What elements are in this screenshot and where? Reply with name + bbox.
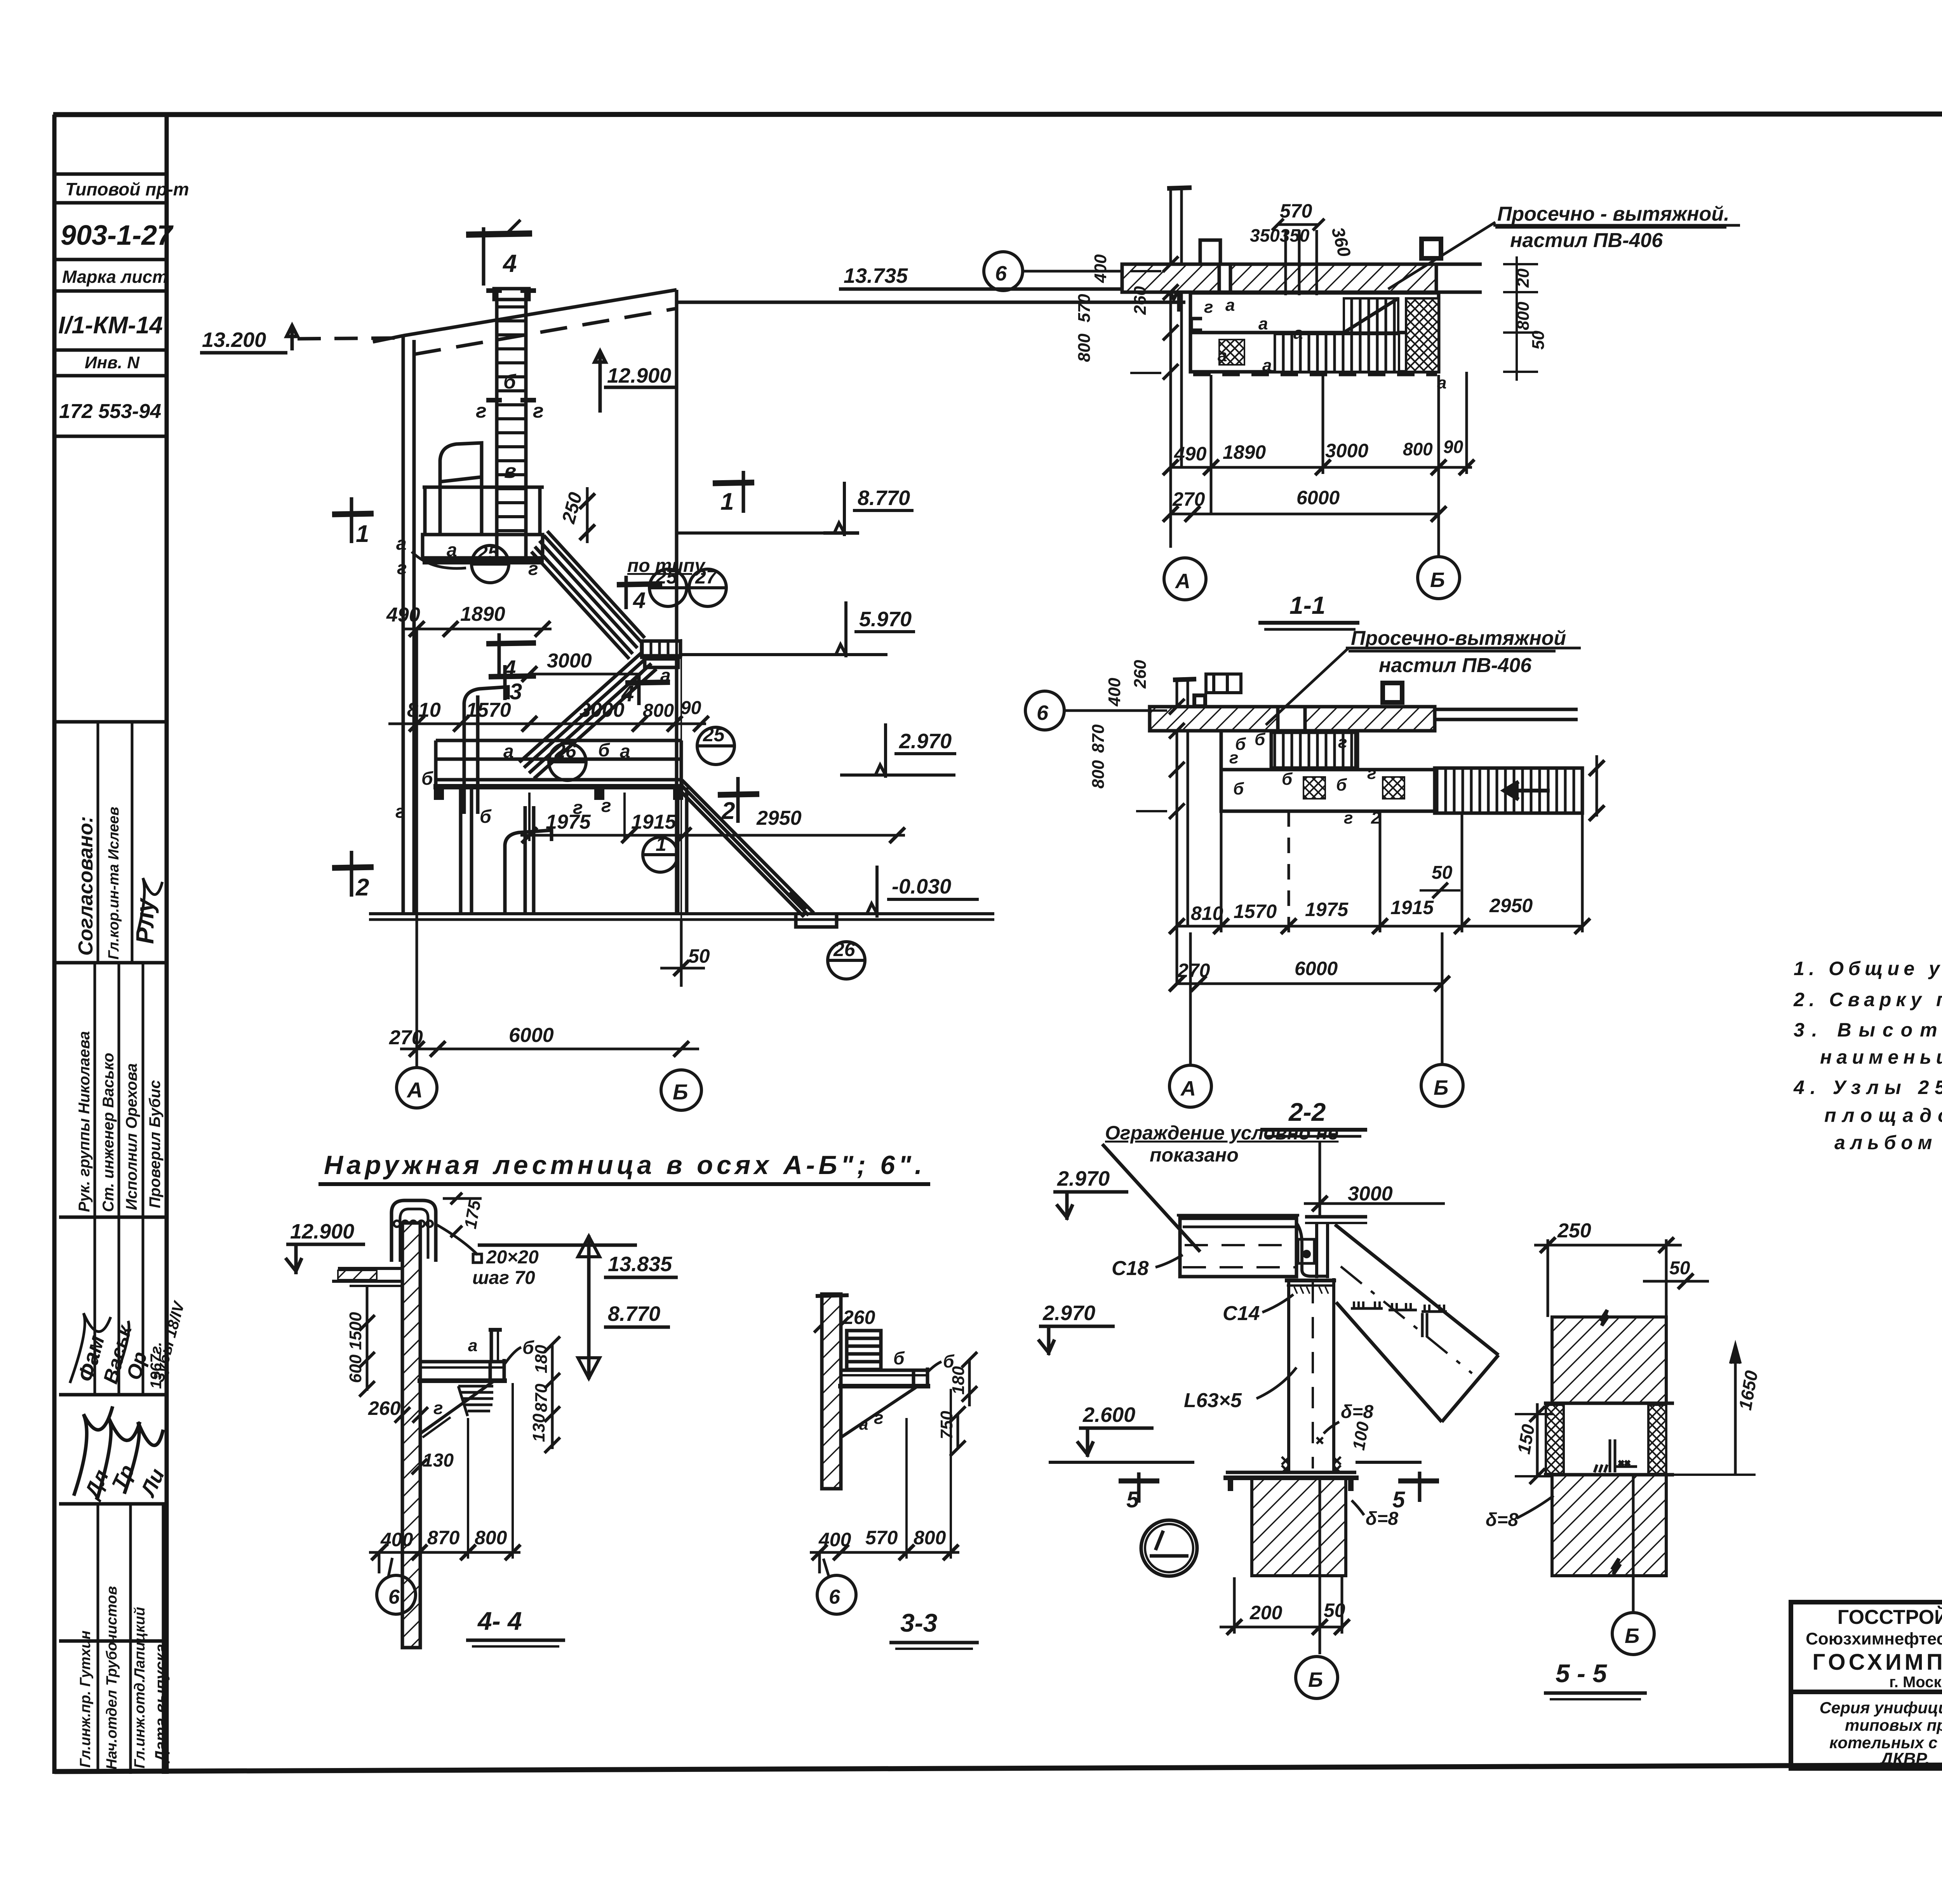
platform plan body — [1190, 293, 1439, 375]
beam band v55 — [1544, 1403, 1674, 1475]
svg-text:260: 260 — [1131, 286, 1150, 315]
svg-text:настил ПВ-406: настил ПВ-406 — [1379, 654, 1532, 677]
right rotated dims v33 — [937, 1366, 968, 1439]
svg-text:а: а — [660, 665, 671, 686]
svg-text:а: а — [620, 741, 630, 762]
right end ticks s22 — [1589, 755, 1604, 821]
svg-text:г: г — [476, 400, 487, 422]
section marker 2 right — [718, 777, 759, 823]
svg-text:а: а — [468, 1336, 477, 1355]
svg-text:50: 50 — [1432, 862, 1453, 883]
svg-text:а: а — [859, 1415, 868, 1433]
eaves line right — [677, 301, 1185, 304]
ladder top cap — [494, 289, 529, 300]
svg-text:750: 750 — [937, 1411, 956, 1439]
dim 50 — [660, 920, 705, 987]
dim row 1975 1915 2950 — [520, 793, 905, 843]
dim 570 top — [1272, 219, 1324, 295]
deck band s22 — [1221, 731, 1435, 811]
brace v33 — [841, 1387, 917, 1437]
notes block — [1793, 918, 1942, 1153]
beam C18 — [1177, 1215, 1367, 1277]
platform v33 — [838, 1367, 930, 1388]
svg-text:12.900: 12.900 — [290, 1220, 354, 1243]
railing bracket upper — [440, 443, 482, 533]
node marker 4 mid — [486, 633, 536, 679]
svg-text:г: г — [533, 400, 544, 422]
stair foot plate — [796, 913, 837, 927]
svg-text:810: 810 — [407, 699, 441, 721]
svg-text:типовых проектов: типовых проектов — [1845, 1716, 1942, 1734]
wall hatched band top — [1122, 264, 1482, 292]
svg-text:Б: Б — [1625, 1624, 1639, 1648]
node marker 3 — [489, 665, 536, 700]
roof slope solid — [373, 336, 403, 342]
svg-text:Рук. группы Николаева: Рук. группы Николаева — [76, 1031, 93, 1212]
level mark 5.970 — [680, 601, 915, 657]
svg-text:2.970: 2.970 — [899, 730, 952, 753]
level mark -0.030 — [867, 866, 979, 918]
svg-text:800: 800 — [1075, 333, 1094, 362]
svg-text:Б: Б — [1434, 1076, 1448, 1099]
svg-text:1570: 1570 — [1234, 901, 1277, 922]
svg-text:90: 90 — [680, 698, 701, 718]
ladder square right s22 — [1383, 683, 1402, 702]
top tick v33 — [816, 1295, 849, 1296]
svg-text:ГОСХИМПРОЕКТ: ГОСХИМПРОЕКТ — [1812, 1650, 1942, 1675]
svg-text:5: 5 — [1126, 1487, 1139, 1512]
left rotated dims — [1075, 254, 1150, 362]
connection plates — [1296, 1223, 1328, 1278]
svg-text:400: 400 — [380, 1529, 413, 1550]
landing 5.970 — [640, 641, 682, 667]
level mark 12.900 — [595, 350, 676, 413]
svg-text:3: 3 — [510, 679, 522, 704]
svg-text:Просечно - вытяжной.: Просечно - вытяжной. — [1497, 203, 1730, 225]
svg-text:1890: 1890 — [1223, 441, 1266, 463]
svg-text:1570: 1570 — [466, 699, 511, 721]
axis circle А — [397, 1068, 437, 1108]
svg-text:3-3: 3-3 — [900, 1608, 937, 1637]
column C14 — [1285, 1278, 1336, 1472]
leader просечно-вытяжной — [1388, 222, 1740, 289]
upper platform 8.770 — [423, 443, 544, 562]
platform v44 — [418, 1330, 507, 1383]
svg-text:800: 800 — [1403, 439, 1433, 459]
svg-text:Проверил Бубис: Проверил Бубис — [146, 1080, 164, 1208]
svg-text:4- 4: 4- 4 — [477, 1606, 522, 1635]
wall hatched v33 — [822, 1294, 841, 1489]
axis circle Б s22 — [1421, 1064, 1463, 1106]
svg-text:настил ПВ-406: настил ПВ-406 — [1510, 229, 1663, 252]
svg-text:2: 2 — [721, 798, 735, 824]
svg-text:Просечно-вытяжной: Просечно-вытяжной — [1351, 627, 1566, 650]
svg-text:2.970: 2.970 — [1042, 1301, 1095, 1325]
svg-text:25: 25 — [655, 566, 678, 588]
building right edge — [675, 290, 679, 915]
foundation block — [1252, 1479, 1346, 1576]
svg-text:3. Высоту сварных швов прин: 3. Высоту сварных швов принимать по — [1794, 1019, 1942, 1041]
wall upper v55 — [1552, 1317, 1666, 1403]
lower bracket — [505, 830, 552, 913]
svg-text:г: г — [397, 558, 407, 578]
svg-text:570: 570 — [1280, 200, 1312, 222]
column square top right — [1422, 239, 1441, 258]
svg-text:показано: показано — [1150, 1144, 1239, 1166]
svg-text:870: 870 — [532, 1383, 551, 1412]
section marker 4 top — [482, 227, 486, 286]
left stamp strip — [54, 115, 167, 1774]
axis circle А s11 — [1164, 558, 1206, 600]
svg-text:а: а — [396, 533, 407, 554]
svg-text:С18: С18 — [1112, 1257, 1148, 1280]
svg-text:4. Узлы 25,26,27 и профили: 4. Узлы 25,26,27 и профили конструкций л… — [1793, 1077, 1942, 1098]
svg-text:г: г — [1367, 764, 1376, 783]
detail circle 25 upper — [472, 545, 509, 583]
wall left edge — [402, 335, 405, 915]
svg-text:810: 810 — [1191, 902, 1223, 924]
level mark 8.770 — [677, 482, 914, 536]
steps v44 — [458, 1386, 493, 1416]
axis circle Б — [661, 1070, 701, 1110]
svg-text:13.835: 13.835 — [608, 1252, 672, 1276]
node marker 4 under landing — [625, 673, 670, 705]
wall hatched band s22 — [1150, 707, 1578, 731]
svg-text:50: 50 — [1669, 1258, 1690, 1279]
right flight band s22 — [1435, 768, 1582, 813]
svg-text:Наружная лестница в осях А: Наружная лестница в осях А-Б"; 6". — [324, 1150, 922, 1180]
roof slope dashed — [414, 308, 677, 354]
angle detail inside v55 — [1594, 1439, 1637, 1472]
svg-text:800: 800 — [1089, 760, 1108, 789]
svg-text:Марка лист: Марка лист — [62, 267, 168, 287]
svg-text:г: г — [1344, 808, 1353, 827]
svg-text:а: а — [447, 540, 457, 561]
node signature scribbles — [70, 878, 163, 1500]
bearing plates crosshatch v55 — [1546, 1405, 1564, 1474]
svg-text:490: 490 — [386, 604, 420, 626]
svg-text:ГОССТРОЙ СССР: ГОССТРОЙ СССР — [1838, 1606, 1942, 1629]
svg-text:г: г — [874, 1408, 884, 1428]
svg-text:δ=8: δ=8 — [1486, 1510, 1518, 1530]
svg-text:Союзхимнефтестройпроект: Союзхимнефтестройпроект — [1806, 1629, 1942, 1648]
crosshatch squares s22 — [1303, 777, 1325, 799]
svg-text:2950: 2950 — [1489, 895, 1533, 916]
dim 250 rail — [579, 487, 595, 543]
axis circle 6 — [984, 252, 1171, 291]
svg-text:б: б — [480, 807, 492, 827]
svg-text:г: г — [433, 1398, 443, 1418]
channel marks and labels — [1204, 296, 1446, 392]
svg-text:2: 2 — [1371, 808, 1381, 827]
svg-text:шаг 70: шаг 70 — [472, 1268, 535, 1288]
svg-text:Ограждение условно не: Ограждение условно не — [1105, 1122, 1338, 1144]
svg-text:270: 270 — [1177, 960, 1210, 981]
svg-text:Б: Б — [1308, 1668, 1323, 1691]
svg-text:6: 6 — [829, 1586, 840, 1608]
svg-text:1: 1 — [356, 521, 369, 547]
svg-text:50: 50 — [1324, 1599, 1345, 1621]
rung dots — [394, 1221, 433, 1227]
crosshatch right block — [1406, 298, 1439, 372]
svg-text:270: 270 — [389, 1026, 423, 1049]
svg-text:8.770: 8.770 — [608, 1302, 660, 1326]
flight 2 stringer — [519, 653, 656, 779]
svg-text:3000: 3000 — [1325, 440, 1368, 462]
svg-text:г: г — [1338, 733, 1347, 752]
svg-text:Ст. инженер Васько: Ст. инженер Васько — [100, 1053, 117, 1212]
svg-text:1975: 1975 — [1305, 899, 1349, 920]
ladder rungs — [486, 291, 536, 531]
break marks v55 — [1600, 1310, 1609, 1326]
node circle marker — [1141, 1520, 1197, 1576]
dim 13.835 and 8.770 v44 — [478, 1235, 637, 1379]
svg-text:6: 6 — [995, 262, 1007, 285]
svg-text:Б: Б — [1430, 568, 1445, 592]
svg-text:δ=8: δ=8 — [1341, 1402, 1373, 1422]
dim row 490 1890 — [404, 621, 552, 637]
dim row 270 6000 — [400, 629, 699, 1068]
detail circle 1 — [643, 837, 678, 872]
detail circle 27 — [689, 569, 726, 606]
section marker 1 right — [713, 471, 754, 513]
brace v44 — [420, 1381, 493, 1437]
svg-text:в: в — [504, 460, 516, 483]
svg-text:L63×5: L63×5 — [1184, 1389, 1242, 1412]
svg-text:50: 50 — [688, 945, 710, 967]
detail circle 25 c — [697, 727, 734, 765]
svg-text:а: а — [503, 741, 514, 762]
svg-text:б: б — [598, 740, 610, 761]
svg-text:250: 250 — [1557, 1219, 1591, 1242]
svg-text:870: 870 — [1089, 724, 1108, 753]
svg-text:Гл.инж.отд.Лапицкий: Гл.инж.отд.Лапицкий — [132, 1607, 148, 1768]
axis line and circle Б v55 — [1632, 1476, 1635, 1612]
detail circle 26 ground — [828, 942, 865, 979]
svg-text:2.970: 2.970 — [1057, 1167, 1110, 1190]
detail circle 26 — [549, 743, 586, 780]
right rotated dims — [1514, 268, 1548, 350]
svg-text:I/1-КМ-14: I/1-КМ-14 — [58, 312, 163, 339]
detail circle 25 b — [649, 569, 687, 606]
svg-text:2950: 2950 — [756, 807, 802, 829]
svg-text:570: 570 — [865, 1527, 898, 1549]
svg-text:800: 800 — [643, 700, 674, 721]
svg-text:б: б — [1336, 775, 1347, 794]
wall lower v55 — [1552, 1475, 1666, 1576]
level mark 13.735 — [839, 289, 1185, 312]
svg-text:1915: 1915 — [1390, 897, 1434, 918]
svg-text:6: 6 — [1037, 701, 1049, 725]
svg-text:1500: 1500 — [346, 1312, 365, 1350]
support columns — [461, 787, 687, 914]
section marker 1 left — [332, 497, 374, 543]
svg-text:4: 4 — [633, 588, 646, 613]
svg-text:г: г — [1204, 298, 1213, 317]
wire strip right edge — [165, 115, 169, 1774]
svg-text:3000: 3000 — [1348, 1183, 1393, 1205]
svg-text:Исполнил Орехова: Исполнил Орехова — [123, 1063, 140, 1210]
svg-text:г: г — [395, 801, 405, 822]
svg-text:ДКВР.: ДКВР. — [1879, 1749, 1930, 1768]
crosshatch at column base — [1282, 1437, 1341, 1473]
dim 175 top — [443, 1193, 482, 1237]
svg-text:260: 260 — [1131, 660, 1150, 689]
platform 2.970 — [433, 687, 684, 913]
svg-text:котельных с котлами: котельных с котлами — [1829, 1733, 1942, 1752]
svg-text:6000: 6000 — [1295, 958, 1338, 979]
svg-text:г. Москва.: г. Москва. — [1889, 1674, 1942, 1691]
wall hatched v44 — [402, 1223, 420, 1648]
svg-text:26: 26 — [554, 740, 577, 762]
svg-text:1975: 1975 — [546, 811, 591, 833]
leader text s22 — [1266, 648, 1581, 725]
svg-text:г: г — [528, 559, 538, 579]
svg-text:2: 2 — [355, 874, 369, 901]
svg-text:570: 570 — [1075, 294, 1094, 322]
axis circle Б node — [1296, 1657, 1338, 1698]
axis circle 6 v44 — [377, 1575, 416, 1614]
svg-text:260: 260 — [368, 1397, 401, 1419]
axis circle 6 v33 — [817, 1575, 856, 1614]
svg-text:Дата выпуска:: Дата выпуска: — [151, 1638, 170, 1763]
svg-text:400: 400 — [1091, 254, 1110, 283]
svg-text:А: А — [1175, 570, 1190, 593]
svg-text:б: б — [1233, 779, 1244, 798]
stair stringer node — [1335, 1225, 1498, 1422]
ladder box v33 — [847, 1331, 881, 1369]
svg-text:25: 25 — [703, 724, 725, 746]
arrow left in flight — [1504, 782, 1550, 800]
svg-text:Гл.инж.пр. Гутхин: Гл.инж.пр. Гутхин — [77, 1631, 94, 1768]
ladder bracket marks — [486, 398, 502, 402]
svg-text:3000: 3000 — [579, 699, 625, 721]
svg-text:1967г.: 1967г. — [148, 1342, 165, 1389]
svg-text:27: 27 — [695, 566, 718, 588]
beam end marks — [434, 787, 683, 800]
leader curve a to 25 — [412, 552, 466, 568]
wire left frame line — [52, 115, 57, 1774]
svg-text:г: г — [573, 798, 583, 818]
axis circle А s22 — [1169, 1065, 1211, 1107]
svg-text:а: а — [1225, 296, 1235, 315]
svg-text:5.970: 5.970 — [859, 608, 912, 631]
svg-text:903-1-27: 903-1-27 — [61, 220, 174, 251]
level mark 13.200 — [200, 325, 402, 353]
treads hatch upper — [1344, 298, 1398, 333]
bottom dims s22 — [1169, 811, 1590, 934]
railing bracket mid — [464, 687, 508, 814]
svg-text:6000: 6000 — [1296, 487, 1340, 509]
svg-text:25: 25 — [477, 542, 499, 564]
svg-text:Гл.кор.ин-та Ислеев: Гл.кор.ин-та Ислеев — [106, 807, 122, 960]
ground line — [369, 914, 994, 920]
elevation view — [373, 220, 1185, 915]
axis circle Б s11 — [1418, 557, 1460, 599]
svg-text:870: 870 — [427, 1527, 460, 1549]
dim row 810 1570 3000 800 90 — [388, 716, 709, 732]
svg-text:490: 490 — [1174, 443, 1207, 465]
svg-text:1-1: 1-1 — [1289, 591, 1326, 619]
labels s22 — [1229, 730, 1381, 827]
axis circle 6 s22 — [1025, 691, 1177, 730]
column square top left — [1200, 240, 1220, 264]
flight 1 stringer — [531, 531, 645, 659]
section marker 2 left — [332, 851, 374, 897]
svg-text:Б: Б — [673, 1080, 688, 1104]
svg-text:400: 400 — [818, 1529, 851, 1550]
svg-text:26: 26 — [833, 939, 856, 960]
top plates — [1177, 1214, 1299, 1217]
svg-text:12.900: 12.900 — [607, 364, 671, 387]
svg-text:2.600: 2.600 — [1082, 1403, 1135, 1427]
svg-text:600: 600 — [346, 1354, 365, 1383]
svg-text:Серия унифицированных: Серия унифицированных — [1820, 1698, 1942, 1717]
svg-text:130: 130 — [529, 1413, 548, 1442]
section marker 5 right — [1398, 1472, 1439, 1502]
svg-text:Согласовано:: Согласовано: — [75, 816, 97, 956]
bottom dims 1-1 — [1163, 372, 1474, 556]
svg-text:наименьшей толщине свариваем: наименьшей толщине свариваемых элементов… — [1820, 1046, 1942, 1068]
svg-text:площадок и ограждений см. л: площадок и ограждений см. л. I/2-КМ-9,10 — [1824, 1104, 1942, 1126]
dim 3000 mid — [522, 666, 648, 682]
treads hatch lower — [1275, 334, 1399, 372]
svg-text:13.200: 13.200 — [202, 328, 266, 352]
svg-text:Нач.отдел Трубочистов: Нач.отдел Трубочистов — [104, 1586, 120, 1770]
extension lines s22 — [1173, 678, 1196, 985]
base plate — [1223, 1472, 1359, 1491]
small letter labels — [395, 533, 630, 827]
ground line node — [1049, 1461, 1194, 1464]
chimney top s22 — [1194, 674, 1241, 706]
svg-text:б: б — [1255, 730, 1266, 749]
title block — [1791, 1602, 1942, 1768]
crosshatch square — [1219, 340, 1244, 365]
svg-text:800: 800 — [914, 1527, 946, 1549]
wire top frame line — [53, 114, 1942, 115]
svg-text:8.770: 8.770 — [858, 486, 910, 510]
svg-text:-0.030: -0.030 — [892, 875, 951, 898]
svg-text:а: а — [1218, 346, 1227, 365]
svg-text:1915: 1915 — [631, 811, 677, 833]
hatch marks under cap — [1294, 1287, 1328, 1294]
svg-text:а: а — [1262, 356, 1272, 375]
svg-text:альбом 903-1-26,27.: альбом 903-1-26,27. — [1834, 1132, 1942, 1153]
level mark 2.970 — [840, 723, 956, 778]
svg-text:13.735: 13.735 — [844, 264, 908, 287]
wire bottom frame line — [54, 1763, 1942, 1772]
svg-text:а: а — [1293, 324, 1303, 343]
roof slab v44 — [332, 1268, 402, 1286]
handrail loop over parapet — [392, 1200, 436, 1262]
svg-text:δ=8: δ=8 — [1366, 1509, 1398, 1529]
ladder rails — [495, 289, 499, 563]
svg-text:200: 200 — [1249, 1602, 1282, 1624]
wire strip sub-columns — [97, 722, 99, 963]
wire strip row dividers — [54, 172, 167, 176]
svg-text:172 553-94: 172 553-94 — [59, 400, 161, 423]
svg-text:б: б — [503, 371, 517, 393]
svg-text:А: А — [406, 1078, 423, 1102]
svg-text:6: 6 — [388, 1586, 400, 1608]
svg-text:800: 800 — [475, 1527, 507, 1549]
right rotated dims v44 — [529, 1345, 551, 1442]
svg-text:б: б — [1282, 770, 1293, 789]
serrated treads — [1351, 1301, 1447, 1337]
svg-text:б: б — [893, 1348, 905, 1368]
ladder labels — [476, 371, 544, 483]
svg-text:1: 1 — [720, 488, 734, 515]
